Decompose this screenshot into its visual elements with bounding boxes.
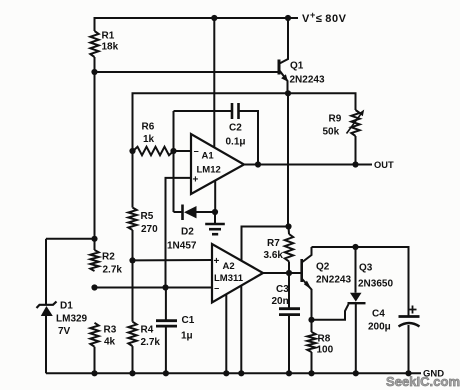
wire R9 to OUT node xyxy=(355,136,357,165)
svg-text:A2: A2 xyxy=(223,261,235,272)
wire R4 to bottom rail xyxy=(132,346,134,373)
svg-text:2N2243: 2N2243 xyxy=(290,75,325,86)
transistor Q2 emitter with arrow xyxy=(302,279,312,320)
node bottom rail A2 pin2 xyxy=(238,370,244,376)
wire A1 V- pin xyxy=(214,181,216,213)
svg-text:D2: D2 xyxy=(181,227,194,238)
svg-text:R4: R4 xyxy=(141,325,154,336)
svg-text:D1: D1 xyxy=(60,301,73,312)
wire feedback up from inv input xyxy=(173,111,175,151)
resistor R2 xyxy=(90,250,98,271)
node bottom rail A2 pin1 xyxy=(223,370,229,376)
wire R8 bottom lead xyxy=(311,352,313,373)
svg-text:R6: R6 xyxy=(142,122,155,133)
capacitor C4 electrolytic xyxy=(399,315,420,318)
node bottom rail R8 xyxy=(308,370,314,376)
wire D1 branch horizontal xyxy=(46,238,95,240)
wire R5-R4 vertical xyxy=(132,260,134,321)
svg-text:C2: C2 xyxy=(229,123,242,134)
node D1 branch junction xyxy=(91,236,97,242)
svg-text:LM329: LM329 xyxy=(56,314,88,325)
wire Q2 emitter to Q3 gate xyxy=(312,304,349,320)
node OUT junction xyxy=(352,161,358,167)
svg-text:R9: R9 xyxy=(329,114,342,125)
wire A1 inverting input stub xyxy=(174,150,192,152)
svg-text:Q2: Q2 xyxy=(316,262,330,273)
diode D2 xyxy=(181,205,184,221)
svg-text:Q3: Q3 xyxy=(359,263,373,274)
wire emitter rail xyxy=(133,93,356,151)
svg-text:2.7k: 2.7k xyxy=(141,337,161,348)
node A1 output junction xyxy=(255,161,261,167)
node R6 left junction xyxy=(129,148,135,154)
wire feedback right of C2 xyxy=(239,111,259,165)
node bottom rail C1 xyxy=(163,370,169,376)
svg-text:100: 100 xyxy=(317,345,334,356)
svg-text:Q1: Q1 xyxy=(290,61,304,72)
transistor Q2 base bar xyxy=(300,259,303,282)
op-amp A1 triangle xyxy=(191,134,244,194)
svg-text:−: − xyxy=(194,147,199,157)
svg-text:7V: 7V xyxy=(58,326,71,337)
transistor Q1 base bar xyxy=(278,60,281,75)
wire A2 - input line xyxy=(95,287,213,289)
wire A1 noninv input xyxy=(166,178,192,288)
svg-text:200μ: 200μ xyxy=(368,322,391,333)
wire D1 branch down xyxy=(45,239,47,304)
capacitor C2 plates xyxy=(231,103,234,119)
transistor Q2 collector xyxy=(302,247,312,263)
wire bottom ground rail xyxy=(46,372,421,374)
transistor Q1 collector xyxy=(280,18,289,64)
node Q2 emitter junction xyxy=(308,317,314,323)
svg-text:2N2243: 2N2243 xyxy=(316,275,351,286)
node A2 output / R7 junction xyxy=(286,270,292,276)
wire A2 output xyxy=(263,272,302,274)
wire R8 top lead xyxy=(311,320,313,332)
svg-text:C3: C3 xyxy=(276,284,289,295)
node Q1 emitter junction xyxy=(285,90,291,96)
wire left rail below R1 xyxy=(94,57,96,250)
arrow through R9 xyxy=(347,113,363,134)
wire A2 bottom pin 1 xyxy=(225,294,227,373)
svg-text:R5: R5 xyxy=(141,211,154,222)
svg-text:A1: A1 xyxy=(202,151,215,162)
wire inv input down to D2 line xyxy=(173,151,175,212)
transistor Q3 symbol xyxy=(350,293,362,302)
svg-text:+: + xyxy=(214,256,220,267)
wire left rail to bottom xyxy=(94,347,96,374)
svg-text:V+≤ 80V: V+≤ 80V xyxy=(302,10,347,25)
wire A2 bottom pin 2 xyxy=(240,286,242,374)
svg-text:18k: 18k xyxy=(102,42,119,53)
node bottom rail C4 xyxy=(405,370,411,376)
svg-text:20n: 20n xyxy=(272,296,289,307)
wire R5 bottom xyxy=(132,230,134,260)
svg-text:1N457: 1N457 xyxy=(167,241,197,252)
svg-text:50k: 50k xyxy=(323,127,340,138)
wire Q2 collector line to C4 xyxy=(312,247,409,316)
node A2 inv line left junction xyxy=(91,284,97,290)
node R5 bottom junction xyxy=(129,257,135,263)
svg-text:R3: R3 xyxy=(104,325,117,336)
resistor R7 xyxy=(285,234,293,262)
svg-text:−: − xyxy=(214,284,219,294)
node A1 ground junction xyxy=(212,209,218,215)
wire R7 leads xyxy=(288,227,291,235)
node bottom rail Q3 xyxy=(353,370,359,376)
wire D2 line left stub xyxy=(174,211,184,213)
wire A1 V+ pin from top rail xyxy=(213,18,215,148)
zener diode D1 xyxy=(37,302,57,309)
wire Q1 emitter drop to R7 xyxy=(287,93,289,226)
ground symbol under A1 xyxy=(214,212,216,224)
resistor R9 variable xyxy=(351,110,359,136)
resistor R4 xyxy=(128,322,136,346)
wire A2 V+ branch xyxy=(242,227,289,262)
svg-text:R7: R7 xyxy=(267,238,280,249)
wire A1 output line xyxy=(244,164,372,166)
svg-text:LM311: LM311 xyxy=(214,273,244,284)
wire left rail R1 top xyxy=(94,17,96,31)
svg-text:1μ: 1μ xyxy=(181,331,193,342)
node R7 top junction xyxy=(285,223,291,229)
node A1 + net to A2 - line junction xyxy=(162,284,168,290)
node bottom rail C3 xyxy=(286,370,292,376)
resistor R8 xyxy=(307,332,315,352)
node bottom rail R4 xyxy=(129,370,135,376)
label C4 plus xyxy=(409,306,417,314)
svg-text:2.7k: 2.7k xyxy=(103,265,123,276)
wire R6 left down to R5 xyxy=(132,151,134,208)
svg-text:R2: R2 xyxy=(102,252,115,263)
svg-text:0.1μ: 0.1μ xyxy=(226,137,246,148)
svg-text:SeekIC.com: SeekIC.com xyxy=(386,374,460,389)
capacitor C3 xyxy=(288,273,290,309)
resistor R6 xyxy=(133,147,174,155)
svg-text:4k: 4k xyxy=(104,337,116,348)
svg-text:LM12: LM12 xyxy=(197,164,221,175)
wire base rail to Q1 xyxy=(95,71,280,73)
svg-text:2N3650: 2N3650 xyxy=(358,279,393,290)
svg-text:R1: R1 xyxy=(102,31,115,42)
wire feedback horizontal left xyxy=(174,110,233,112)
node bottom rail R3 xyxy=(91,370,97,376)
node V+ junction at top of Q1 collector xyxy=(285,15,291,21)
svg-text:1k: 1k xyxy=(143,134,155,145)
node Q3 top junction xyxy=(352,244,358,250)
node R6 right / A1 inv input junction xyxy=(170,148,176,154)
svg-text:270: 270 xyxy=(141,224,158,235)
capacitor C1 xyxy=(165,288,167,321)
transistor Q1 emitter with arrow xyxy=(280,71,288,94)
svg-text:R8: R8 xyxy=(318,334,331,345)
svg-text:C1: C1 xyxy=(182,315,195,326)
svg-text:+: + xyxy=(193,175,199,186)
op-amp A2 triangle xyxy=(212,244,263,303)
resistor R3 xyxy=(90,323,98,347)
resistor R1 xyxy=(90,31,98,57)
wire top supply rail xyxy=(95,17,299,19)
node A1 V+ tap on top rail xyxy=(211,15,217,21)
node R1 bottom / base rail junction xyxy=(91,69,97,75)
svg-text:OUT: OUT xyxy=(374,160,394,170)
wire A2 + input line xyxy=(133,259,213,261)
svg-text:3.6k: 3.6k xyxy=(264,250,284,261)
wire Q3 anode xyxy=(355,247,357,293)
resistor R5 xyxy=(128,208,136,231)
svg-text:C4: C4 xyxy=(372,309,385,320)
